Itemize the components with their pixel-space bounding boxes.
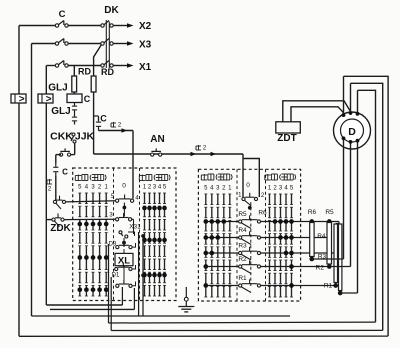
svg-text:D: D [348, 126, 356, 138]
svg-text:X31: X31 [129, 224, 141, 231]
svg-text:R1: R1 [324, 283, 333, 290]
svg-text:AN: AN [150, 134, 164, 145]
svg-text:D1: D1 [112, 273, 120, 279]
svg-text:RD: RD [101, 67, 114, 77]
svg-text:R2: R2 [316, 265, 325, 272]
svg-text:ZDK: ZDK [50, 223, 71, 234]
svg-text:JJK: JJK [75, 131, 95, 143]
svg-text:R5: R5 [325, 209, 334, 216]
svg-text:GLJ: GLJ [51, 106, 70, 117]
svg-text:DK: DK [104, 5, 119, 16]
svg-text:R3: R3 [238, 243, 247, 250]
svg-text:0: 0 [122, 183, 126, 190]
svg-text:GLJ: GLJ [48, 83, 67, 94]
svg-text:XL: XL [118, 256, 130, 267]
svg-text:RD: RD [78, 67, 91, 77]
svg-text:R2: R2 [238, 256, 247, 263]
svg-text:ZDT: ZDT [277, 133, 296, 144]
svg-text:X3: X3 [139, 40, 152, 51]
svg-text:R4: R4 [317, 233, 326, 240]
svg-text:R6: R6 [258, 210, 267, 217]
svg-text:R1: R1 [238, 275, 247, 282]
svg-text:R5: R5 [238, 211, 247, 218]
svg-text:C: C [62, 168, 68, 177]
svg-text:X1: X1 [139, 62, 152, 73]
svg-text:R6: R6 [308, 209, 317, 216]
svg-text:R4: R4 [238, 227, 247, 234]
svg-text:X2: X2 [139, 21, 152, 32]
svg-text:C: C [84, 94, 91, 104]
svg-text:C: C [59, 9, 66, 20]
svg-text:0: 0 [246, 182, 250, 189]
svg-text:C: C [100, 114, 107, 124]
svg-text:CKK: CKK [50, 131, 73, 143]
svg-text:>: > [19, 94, 25, 105]
